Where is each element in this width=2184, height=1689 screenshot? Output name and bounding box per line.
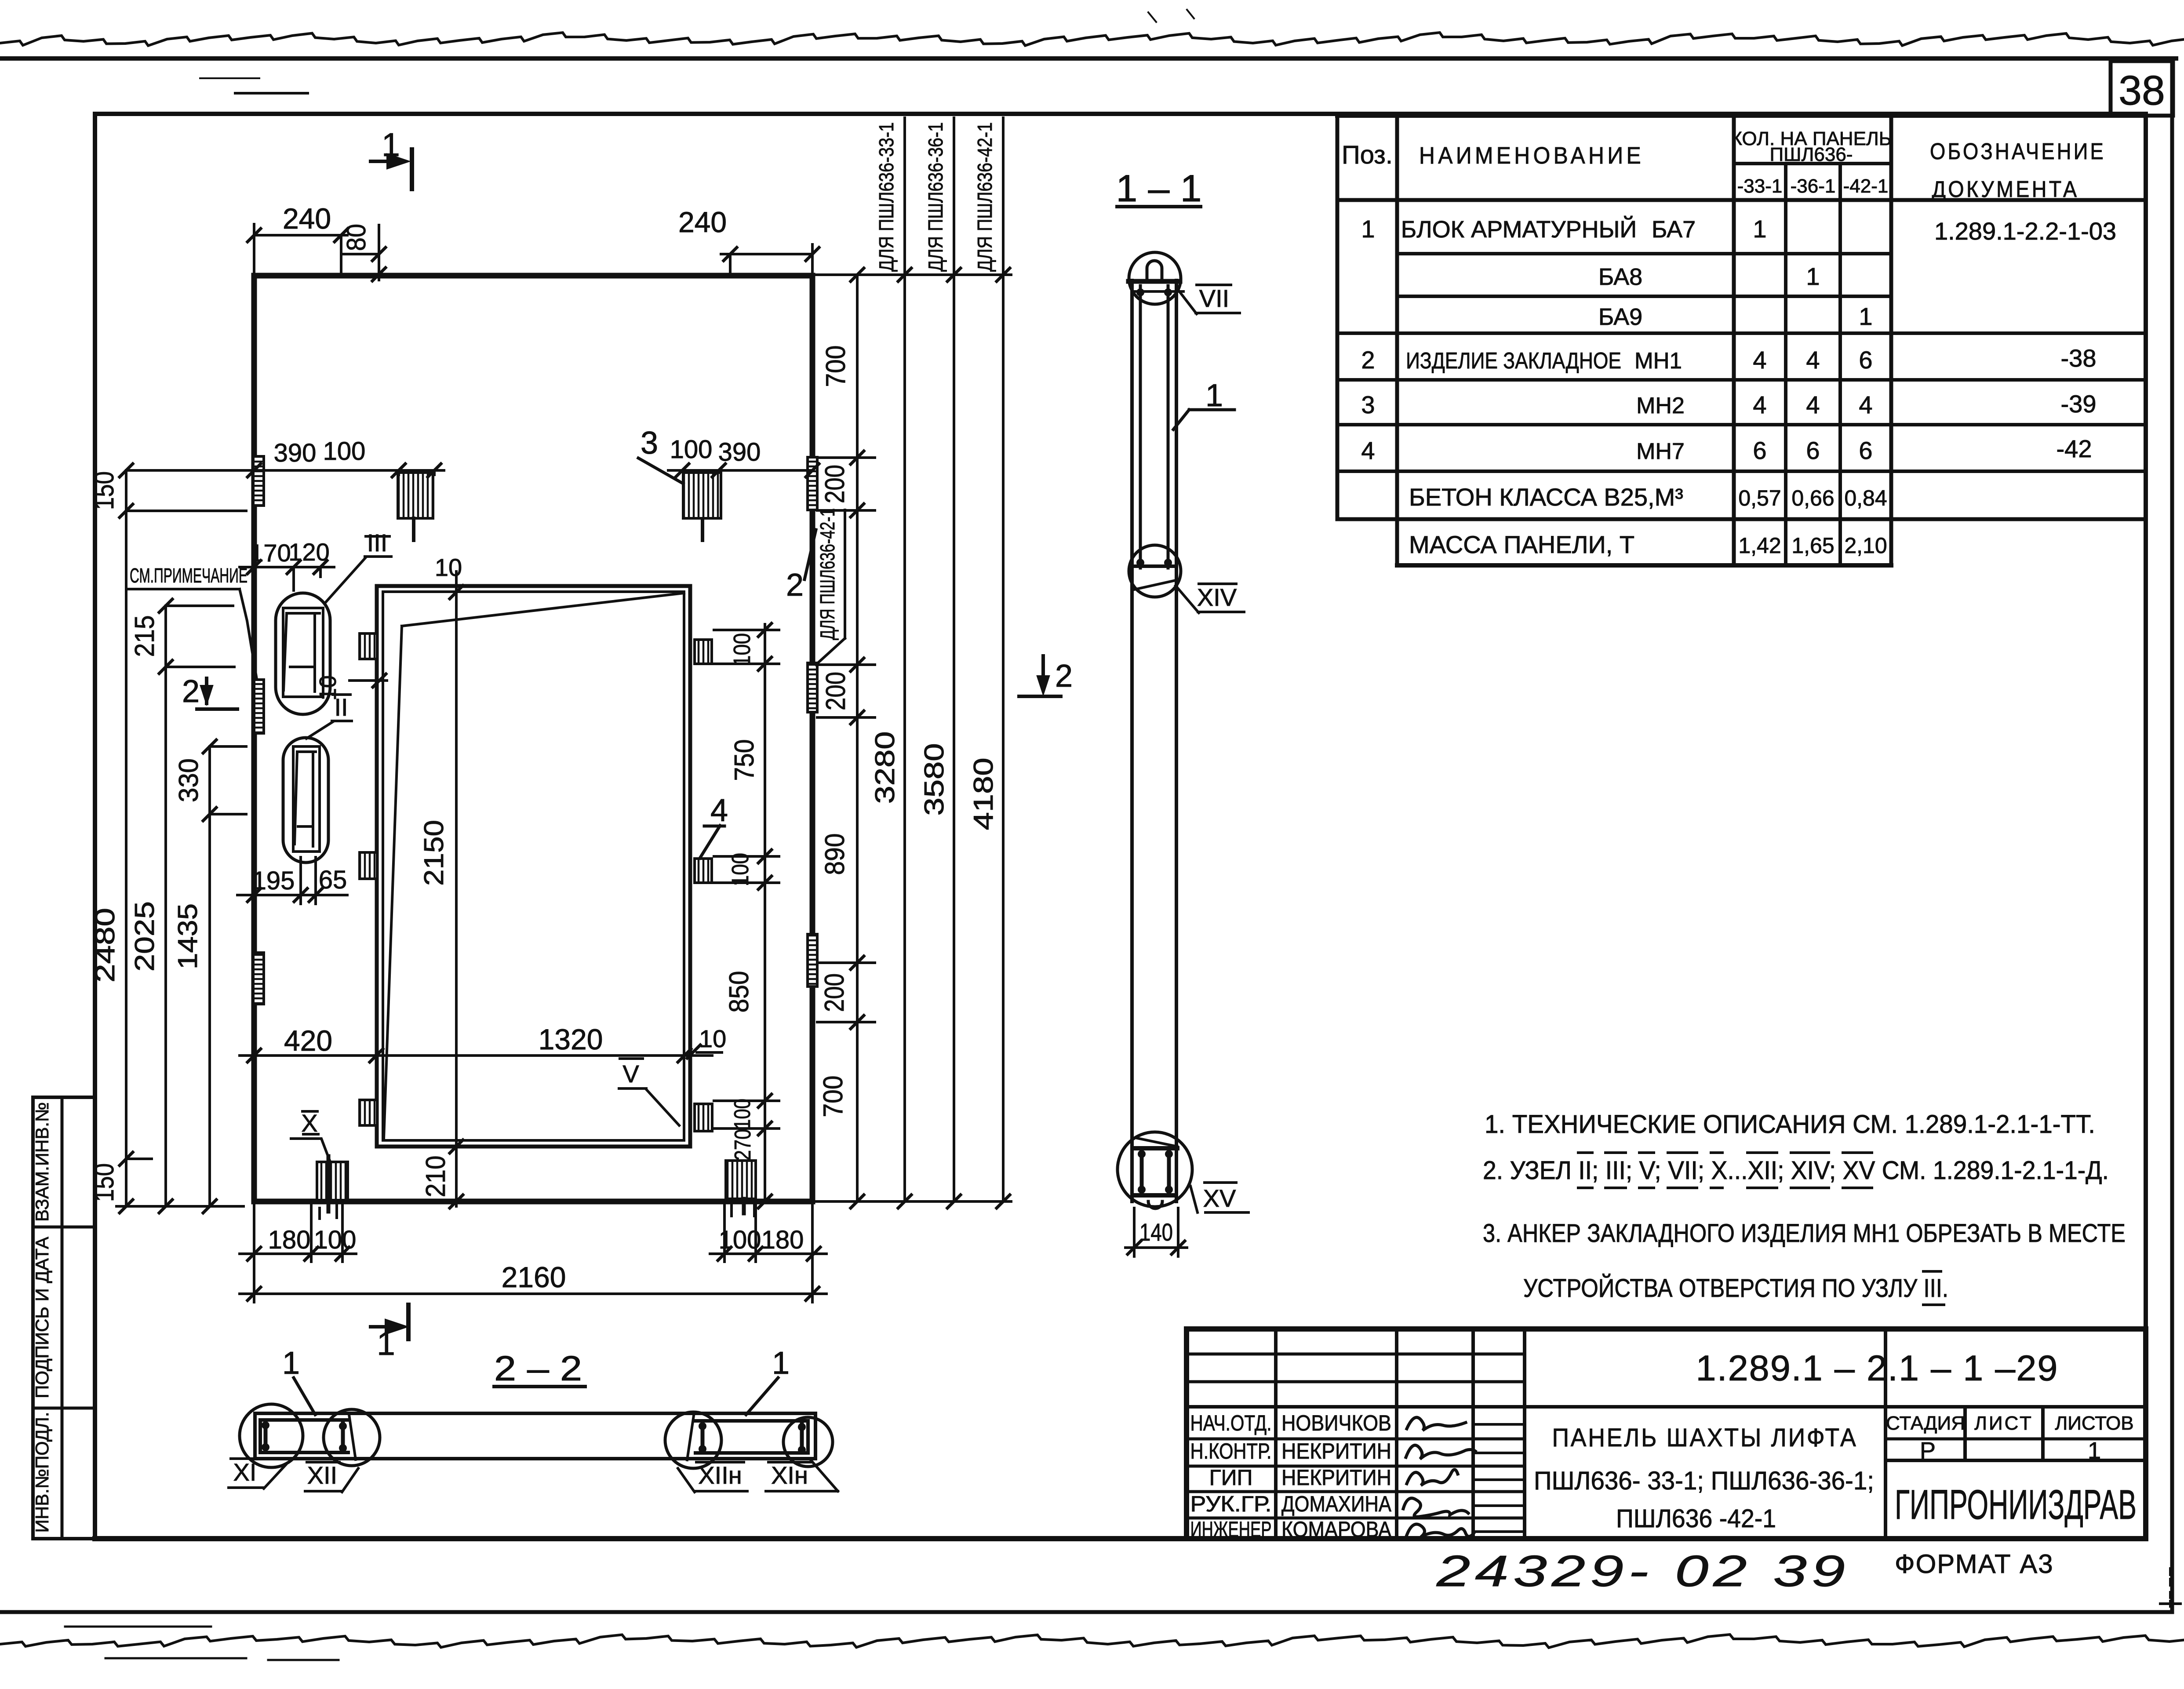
svg-text:ВЗАМ.ИНВ.№: ВЗАМ.ИНВ.№: [32, 1102, 52, 1222]
1-1 bottom hook: [1148, 1201, 1162, 1209]
svg-text:1: 1: [2088, 1438, 2101, 1464]
top stray marks: [1148, 10, 1194, 22]
svg-text:ДОКУМЕНТА: ДОКУМЕНТА: [1932, 177, 2079, 202]
svg-text:XII: XII: [307, 1461, 337, 1489]
svg-text:180: 180: [761, 1226, 804, 1254]
svg-text:1: 1: [1859, 302, 1872, 330]
section marker 2 right: [1041, 656, 1045, 689]
svg-text:2150: 2150: [419, 820, 449, 886]
registration marks bottom right: [2169, 1569, 2172, 1588]
dim 80: [341, 253, 379, 255]
svg-text:2: 2: [1361, 346, 1375, 374]
svg-text:ДЛЯ ПШЛ636-42-1: ДЛЯ ПШЛ636-42-1: [816, 508, 839, 640]
section marker 1 top: [410, 149, 414, 189]
2-2 right cage: [695, 1419, 808, 1423]
dim 2150 vertical: [455, 571, 458, 1206]
svg-text:МАССА ПАНЕЛИ, Т: МАССА ПАНЕЛИ, Т: [1409, 531, 1634, 558]
variant line 42-1: [1002, 118, 1005, 1201]
svg-text:240: 240: [283, 202, 331, 235]
door reveal diagonal left: [384, 626, 402, 1139]
svg-text:1. ТЕХНИЧЕСКИЕ ОПИСАНИЯ СМ. 1.: 1. ТЕХНИЧЕСКИЕ ОПИСАНИЯ СМ. 1.289.1-2.1-…: [1485, 1110, 2095, 1139]
svg-text:Р: Р: [1920, 1438, 1936, 1464]
2-2 bar outline: [255, 1412, 815, 1415]
svg-text:3280: 3280: [870, 732, 900, 804]
page number box: [2111, 61, 2173, 116]
section marker 1 bottom: [406, 1305, 411, 1339]
svg-text:УСТРОЙСТВА ОТВЕРСТИЯ ПО УЗЛУ I: УСТРОЙСТВА ОТВЕРСТИЯ ПО УЗЛУ III.: [1523, 1274, 1948, 1303]
svg-text:120: 120: [288, 538, 329, 566]
svg-text:СМ.ПРИМЕЧАНИЕ: СМ.ПРИМЕЧАНИЕ: [130, 564, 248, 587]
date column sub-lines: [1473, 1423, 1525, 1426]
svg-text:XV: XV: [1203, 1184, 1236, 1212]
svg-text:215: 215: [130, 615, 160, 657]
svg-text:БА9: БА9: [1598, 304, 1642, 330]
right ext top: [815, 273, 1011, 276]
bottom stray dash: [65, 1626, 211, 1628]
svg-text:4: 4: [1753, 391, 1766, 419]
svg-text:ЛИСТ: ЛИСТ: [1974, 1412, 2033, 1434]
svg-text:XIн: XIн: [771, 1461, 808, 1489]
svg-text:2: 2: [182, 674, 200, 709]
svg-text:0,66: 0,66: [1791, 486, 1834, 510]
svg-text:XI: XI: [233, 1458, 257, 1486]
svg-text:700: 700: [821, 346, 851, 387]
svg-text:ИНВ.№ПОДЛ.: ИНВ.№ПОДЛ.: [32, 1412, 52, 1533]
svg-text:420: 420: [284, 1024, 332, 1057]
svg-text:65: 65: [319, 866, 347, 894]
svg-text:180: 180: [268, 1226, 311, 1254]
svg-text:100: 100: [323, 437, 366, 466]
svg-text:10: 10: [315, 675, 341, 701]
svg-text:1: 1: [1806, 262, 1820, 290]
svg-text:III: III: [367, 529, 388, 557]
embed plate MN top-right (pos.3): [683, 473, 721, 518]
svg-text:24329- 02 39: 24329- 02 39: [1436, 1547, 1850, 1596]
1-1 bottom circle XV: [1117, 1132, 1192, 1207]
dim 10 door left: [349, 679, 387, 682]
1-1 bottom rebar cage: [1135, 1146, 1177, 1150]
svg-text:2,10: 2,10: [1844, 533, 1887, 558]
embed plate MN top-left (pos.3 type): [398, 473, 433, 518]
drawing frame: [93, 114, 97, 1539]
svg-text:1.289.1-2.2-1-03: 1.289.1-2.2-1-03: [1934, 217, 2116, 245]
title block outline: [1187, 1329, 2146, 1539]
node II oval: [283, 738, 328, 863]
svg-text:890: 890: [820, 834, 850, 875]
svg-text:БЛОК АРМАТУРНЫЙ: БЛОК АРМАТУРНЫЙ: [1401, 216, 1637, 243]
dim 100/180 right: [710, 1252, 826, 1255]
dim 2160: [240, 1292, 826, 1295]
svg-text:МН2: МН2: [1636, 393, 1685, 419]
svg-text:ПШЛ636 -42-1: ПШЛ636 -42-1: [1616, 1504, 1776, 1533]
svg-text:1: 1: [772, 1346, 790, 1381]
svg-text:700: 700: [818, 1076, 848, 1118]
svg-text:ЛИСТОВ: ЛИСТОВ: [2055, 1412, 2133, 1434]
svg-text:ГИПРОНИИЗДРАВ: ГИПРОНИИЗДРАВ: [1895, 1482, 2137, 1528]
1-1 column outline: [1130, 280, 1134, 1201]
embed plate bottom-right: [726, 1161, 756, 1199]
svg-text:10: 10: [699, 1025, 726, 1052]
svg-text:РУК.ГР.: РУК.ГР.: [1190, 1492, 1272, 1516]
variant line 33-1: [903, 118, 906, 1201]
svg-text:100: 100: [670, 435, 713, 464]
dim 195/65: [237, 894, 347, 896]
left dim line 215/2025: [164, 606, 167, 1206]
svg-text:КОМАРОВА: КОМАРОВА: [1281, 1517, 1392, 1542]
svg-text:3. АНКЕР ЗАКЛАДНОГО ИЗДЕЛИЯ МН: 3. АНКЕР ЗАКЛАДНОГО ИЗДЕЛИЯ МН1 ОБРЕЗАТЬ…: [1483, 1219, 2126, 1248]
svg-text:МН1: МН1: [1634, 348, 1682, 374]
edge plates right (pos.2, ladder hatch): [808, 457, 817, 510]
left dim line 330/1435: [208, 746, 211, 1206]
svg-text:2: 2: [1055, 659, 1073, 694]
svg-text:СТАДИЯ: СТАДИЯ: [1886, 1412, 1965, 1434]
svg-text:210: 210: [421, 1156, 451, 1198]
svg-text:X: X: [301, 1109, 317, 1137]
door frame plates right (pos.4): [695, 640, 712, 664]
svg-text:1 – 1: 1 – 1: [1116, 167, 1202, 210]
svg-text:100: 100: [727, 853, 753, 886]
svg-text:390: 390: [718, 438, 761, 466]
svg-text:ПАНЕЛЬ ШАХТЫ ЛИФТА: ПАНЕЛЬ ШАХТЫ ЛИФТА: [1552, 1423, 1858, 1452]
svg-text:V: V: [622, 1060, 639, 1088]
dim 420/1320/10: [240, 1054, 712, 1057]
sheet bottom torn edge: [0, 1634, 2184, 1648]
svg-text:4: 4: [1361, 437, 1375, 464]
svg-text:10: 10: [435, 553, 462, 581]
svg-text:-39: -39: [2061, 390, 2097, 418]
svg-text:2160: 2160: [502, 1261, 566, 1293]
dim 10 door bottom right: [687, 1045, 700, 1058]
svg-text:4: 4: [1859, 391, 1872, 419]
svg-text:НОВИЧКОВ: НОВИЧКОВ: [1281, 1411, 1391, 1435]
svg-text:195: 195: [252, 866, 295, 895]
top stray dash: [235, 92, 308, 95]
sheet bottom border: [0, 1610, 2172, 1614]
svg-text:2025: 2025: [130, 901, 160, 972]
svg-text:4180: 4180: [968, 758, 999, 830]
node III oval: [276, 593, 330, 714]
2-2 left cage: [260, 1418, 348, 1422]
title block horizontals: [1187, 1353, 1525, 1356]
edge plates left (ladder hatch): [253, 456, 264, 506]
dim 240 right: [721, 253, 812, 255]
svg-text:ИНЖЕНЕР: ИНЖЕНЕР: [1190, 1517, 1272, 1542]
svg-text:390: 390: [274, 439, 317, 467]
svg-text:Н.КОНТР.: Н.КОНТР.: [1190, 1439, 1272, 1463]
parts table grid: [1336, 116, 1340, 519]
svg-text:0,57: 0,57: [1738, 486, 1781, 510]
svg-text:1: 1: [1205, 378, 1223, 413]
svg-text:100: 100: [730, 1099, 755, 1129]
svg-text:4: 4: [1753, 346, 1766, 374]
gap dim line: [764, 624, 766, 1201]
svg-text:ДЛЯ ПШЛ636-42-1: ДЛЯ ПШЛ636-42-1: [973, 122, 996, 272]
svg-text:-42-1: -42-1: [1843, 175, 1889, 197]
svg-text:2: 2: [786, 568, 804, 603]
svg-text:1: 1: [1361, 215, 1375, 243]
svg-text:4: 4: [1806, 391, 1820, 419]
svg-text:150: 150: [89, 471, 120, 510]
svg-text:1.289.1 – 2.1 – 1 –29: 1.289.1 – 2.1 – 1 –29: [1696, 1348, 2059, 1388]
svg-text:3: 3: [1361, 391, 1375, 419]
svg-text:VII: VII: [1199, 284, 1229, 312]
1-1 lifting hook: [1147, 261, 1162, 280]
svg-text:НЕКРИТИН: НЕКРИТИН: [1281, 1465, 1391, 1490]
svg-text:150: 150: [89, 1163, 120, 1202]
svg-text:-38: -38: [2061, 344, 2097, 372]
svg-text:ОБОЗНАЧЕНИЕ: ОБОЗНАЧЕНИЕ: [1930, 139, 2106, 164]
svg-text:1: 1: [282, 1346, 300, 1381]
svg-text:ФОРМАТ А3: ФОРМАТ А3: [1895, 1549, 2054, 1579]
svg-text:200: 200: [820, 465, 850, 503]
svg-text:БА8: БА8: [1598, 264, 1642, 290]
svg-text:-36-1: -36-1: [1791, 175, 1836, 197]
svg-text:1,65: 1,65: [1791, 533, 1834, 558]
door opening outer: [377, 586, 690, 1147]
svg-text:750: 750: [729, 739, 760, 781]
svg-text:ИЗДЕЛИЕ ЗАКЛАДНОЕ: ИЗДЕЛИЕ ЗАКЛАДНОЕ: [1406, 348, 1621, 374]
svg-text:2. УЗЕЛ II; III; V; VII; X...X: 2. УЗЕЛ II; III; V; VII; X...XII; XIV; X…: [1483, 1156, 2109, 1185]
svg-text:240: 240: [678, 206, 727, 238]
svg-text:НАЧ.ОТД.: НАЧ.ОТД.: [1190, 1411, 1272, 1435]
dim 140: [1125, 1246, 1187, 1249]
svg-text:ПШЛ636- 33-1; ПШЛ636-36-1;: ПШЛ636- 33-1; ПШЛ636-36-1;: [1534, 1467, 1874, 1495]
svg-text:НЕКРИТИН: НЕКРИТИН: [1281, 1439, 1391, 1463]
svg-text:ДЛЯ ПШЛ636-33-1: ДЛЯ ПШЛ636-33-1: [875, 122, 898, 272]
dim 240 left: [254, 234, 347, 237]
svg-text:330: 330: [174, 758, 204, 802]
svg-text:100: 100: [719, 1226, 761, 1254]
left dim line 150/2480/150: [125, 470, 127, 1206]
svg-text:1: 1: [377, 1325, 395, 1362]
svg-text:ГИП: ГИП: [1209, 1465, 1253, 1490]
1-1 rebar lines: [1139, 286, 1142, 568]
embed plate bottom-left (pos X): [317, 1162, 348, 1200]
panel outline: [254, 276, 812, 1201]
dim 100/390 right: [668, 469, 812, 472]
svg-text:БА7: БА7: [1652, 216, 1696, 243]
variant line 36-1: [953, 118, 955, 1201]
svg-text:1320: 1320: [539, 1023, 603, 1056]
svg-text:6: 6: [1806, 437, 1820, 464]
svg-text:6: 6: [1859, 437, 1872, 464]
svg-text:200: 200: [821, 672, 851, 710]
2-2 right circles: [665, 1412, 721, 1468]
node II slot: [293, 746, 320, 852]
svg-text:НАИМЕНОВАНИЕ: НАИМЕНОВАНИЕ: [1419, 142, 1644, 169]
svg-text:0,84: 0,84: [1844, 486, 1887, 510]
anchor stubs below plates: [412, 518, 415, 540]
2-2 left circles: [240, 1404, 303, 1467]
svg-text:ПОДПИСЬ И ДАТА: ПОДПИСЬ И ДАТА: [32, 1237, 52, 1398]
1-1 top plate: [1128, 279, 1180, 284]
bottom stray dash 3: [268, 1659, 339, 1661]
svg-text:38: 38: [2118, 67, 2165, 114]
svg-text:4: 4: [710, 793, 728, 828]
svg-text:2 – 2: 2 – 2: [494, 1349, 582, 1388]
door frame plates left: [360, 633, 377, 659]
sheet right edge: [2170, 58, 2174, 1612]
svg-text:Поз.: Поз.: [1342, 141, 1393, 169]
svg-text:ПШЛ636-: ПШЛ636-: [1770, 144, 1853, 165]
svg-text:БЕТОН КЛАССА В25,М³: БЕТОН КЛАССА В25,М³: [1409, 483, 1683, 511]
right ext bottom: [815, 1200, 1011, 1203]
door opening inner: [383, 592, 684, 1140]
bottom stray dash 2: [106, 1657, 246, 1660]
svg-text:140: 140: [1139, 1218, 1173, 1246]
svg-text:МН7: МН7: [1636, 439, 1685, 464]
svg-text:-42: -42: [2057, 435, 2092, 462]
node XIV circle: [1129, 545, 1181, 597]
svg-text:3: 3: [641, 426, 658, 461]
dim 180/100 left: [240, 1252, 356, 1255]
signatures: [1407, 1417, 1466, 1431]
dim 170/120: [240, 566, 334, 568]
left margin stamp boxes: [33, 1097, 95, 1539]
1-1 top circle VII: [1129, 252, 1181, 304]
svg-text:XIV: XIV: [1197, 583, 1237, 611]
svg-text:6: 6: [1753, 437, 1766, 464]
svg-text:200: 200: [819, 973, 850, 1012]
svg-text:3580: 3580: [919, 743, 950, 816]
svg-text:80: 80: [342, 224, 371, 251]
svg-text:4: 4: [1806, 346, 1820, 374]
svg-text:850: 850: [724, 971, 754, 1013]
node III slot: [283, 608, 323, 697]
svg-text:100: 100: [729, 633, 755, 666]
svg-text:XIIн: XIIн: [698, 1461, 742, 1489]
svg-text:170: 170: [250, 539, 291, 567]
door reveal diagonal top: [402, 593, 684, 626]
right seg dim line: [856, 275, 859, 1201]
svg-text:100: 100: [314, 1226, 357, 1254]
note 2 numeral overlines: [1578, 1151, 1592, 1154]
svg-text:2480: 2480: [90, 908, 120, 983]
svg-text:1: 1: [1753, 215, 1766, 243]
svg-text:ДЛЯ ПШЛ636-36-1: ДЛЯ ПШЛ636-36-1: [924, 122, 947, 272]
svg-text:6: 6: [1859, 346, 1872, 374]
svg-text:1,42: 1,42: [1738, 533, 1781, 558]
svg-text:1: 1: [382, 126, 400, 163]
svg-text:ДОМАХИНА: ДОМАХИНА: [1281, 1492, 1392, 1516]
top stray dash 2: [200, 77, 259, 79]
sheet top torn edge: [0, 33, 2184, 46]
svg-text:270: 270: [730, 1129, 756, 1161]
sheet top border: [0, 56, 2176, 61]
dim 390/100 left: [240, 469, 444, 472]
svg-text:-33-1: -33-1: [1737, 175, 1783, 197]
svg-text:1435: 1435: [173, 903, 203, 969]
title block verticals: [1274, 1329, 1278, 1539]
